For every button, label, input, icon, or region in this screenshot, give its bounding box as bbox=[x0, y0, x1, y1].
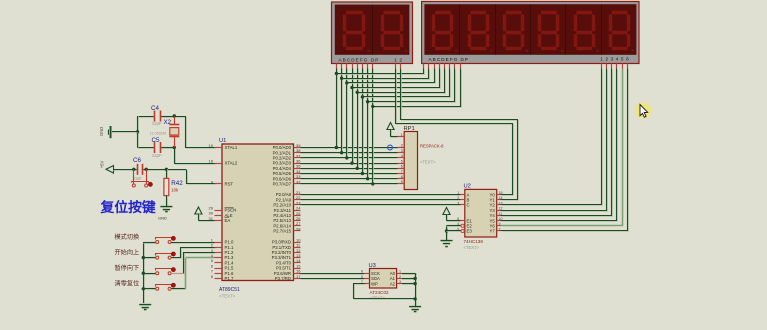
svg-text:EA: EA bbox=[225, 218, 231, 223]
svg-text:1: 1 bbox=[399, 270, 401, 274]
svg-text:C5: C5 bbox=[152, 137, 160, 144]
svg-text:<TEXT>: <TEXT> bbox=[219, 294, 236, 299]
svg-text:U3: U3 bbox=[369, 263, 376, 269]
svg-text:A2: A2 bbox=[390, 281, 396, 286]
svg-text:R42: R42 bbox=[171, 180, 183, 187]
svg-text:Y7: Y7 bbox=[490, 229, 496, 234]
svg-text:RST: RST bbox=[225, 182, 234, 187]
svg-text:P3.7/RD: P3.7/RD bbox=[275, 276, 291, 281]
svg-text:C4: C4 bbox=[151, 105, 159, 112]
svg-text:暂停向下: 暂停向下 bbox=[115, 264, 140, 272]
svg-text:U1: U1 bbox=[219, 138, 226, 144]
svg-text:RESPACK-8: RESPACK-8 bbox=[420, 144, 444, 149]
svg-text:XTAL2: XTAL2 bbox=[225, 161, 238, 166]
svg-text:2: 2 bbox=[399, 275, 401, 279]
svg-text:模式切换: 模式切换 bbox=[115, 233, 140, 241]
svg-text:开始向上: 开始向上 bbox=[115, 248, 140, 256]
svg-text:28: 28 bbox=[296, 226, 301, 231]
svg-text:复位按键: 复位按键 bbox=[100, 199, 156, 215]
svg-text:GND: GND bbox=[158, 215, 167, 220]
svg-text:22pF: 22pF bbox=[152, 121, 162, 126]
svg-text:10k: 10k bbox=[171, 188, 179, 193]
svg-text:5: 5 bbox=[401, 159, 403, 163]
svg-text:GND: GND bbox=[99, 127, 104, 136]
svg-text:E3: E3 bbox=[467, 229, 473, 234]
svg-text:P1.7: P1.7 bbox=[225, 276, 234, 281]
svg-text:1: 1 bbox=[401, 133, 403, 137]
svg-text:6: 6 bbox=[401, 165, 403, 169]
svg-text:12: 12 bbox=[394, 57, 404, 62]
svg-text:123456: 123456 bbox=[600, 57, 631, 62]
svg-text:C6: C6 bbox=[133, 157, 141, 164]
svg-text:7: 7 bbox=[499, 227, 501, 231]
svg-text:ABCDEFG: ABCDEFG bbox=[339, 57, 369, 62]
svg-text:RP1: RP1 bbox=[404, 126, 415, 132]
svg-text:3: 3 bbox=[401, 149, 403, 153]
svg-text:9: 9 bbox=[401, 180, 403, 184]
svg-text:74HC138: 74HC138 bbox=[464, 239, 484, 244]
svg-text:X2: X2 bbox=[164, 119, 172, 126]
svg-text:WP: WP bbox=[371, 281, 378, 286]
svg-text:清零复位: 清零复位 bbox=[115, 280, 140, 288]
svg-text:P2.7/A15: P2.7/A15 bbox=[273, 229, 291, 234]
svg-text:DP: DP bbox=[371, 57, 379, 62]
svg-text:DP: DP bbox=[461, 57, 469, 62]
svg-text:AT24C02: AT24C02 bbox=[370, 290, 390, 295]
svg-text:3: 3 bbox=[399, 280, 401, 284]
svg-text:7: 7 bbox=[401, 170, 403, 174]
svg-text:9: 9 bbox=[499, 222, 501, 226]
svg-text:4: 4 bbox=[401, 154, 403, 158]
svg-text:8: 8 bbox=[401, 175, 403, 179]
svg-text:2: 2 bbox=[401, 144, 403, 148]
svg-text:<TEXT>: <TEXT> bbox=[464, 245, 480, 250]
svg-text:P0.7/AD7: P0.7/AD7 bbox=[273, 182, 292, 187]
svg-text:17: 17 bbox=[296, 274, 301, 279]
svg-text:ABCDEFG: ABCDEFG bbox=[429, 57, 459, 62]
svg-text:32: 32 bbox=[296, 179, 301, 184]
svg-text:22pF: 22pF bbox=[152, 153, 162, 158]
svg-text:C: C bbox=[467, 203, 470, 208]
svg-text:XTAL1: XTAL1 bbox=[225, 145, 238, 150]
svg-text:18: 18 bbox=[209, 159, 214, 164]
svg-text:AT89C51: AT89C51 bbox=[219, 287, 240, 293]
svg-text:U2: U2 bbox=[464, 184, 471, 190]
svg-text:11.0592M: 11.0592M bbox=[150, 131, 167, 135]
svg-text:+5V: +5V bbox=[100, 161, 105, 169]
svg-text:<TEXT>: <TEXT> bbox=[420, 160, 436, 165]
